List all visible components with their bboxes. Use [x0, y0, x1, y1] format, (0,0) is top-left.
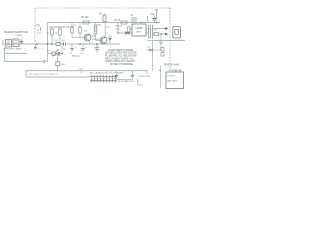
svg-text:+: + — [157, 16, 159, 19]
svg-text:R7 1K: R7 1K — [114, 20, 121, 22]
svg-text:ALL CAPACITORS 16V OR MORE: ALL CAPACITORS 16V OR MORE — [90, 72, 124, 75]
svg-text:ARE 1/4 WATT UNITS. ALL: ARE 1/4 WATT UNITS. ALL — [105, 57, 134, 60]
svg-text:BATTERY: BATTERY — [168, 80, 178, 83]
svg-text:C7: C7 — [105, 33, 109, 35]
svg-text:SHIELDED CABLE: SHIELDED CABLE — [3, 47, 22, 50]
svg-text:+: + — [86, 48, 88, 50]
svg-text:R2: R2 — [62, 40, 66, 42]
svg-text:C11: C11 — [153, 30, 158, 32]
svg-text:PC BOARD. ALL RESISTORS: PC BOARD. ALL RESISTORS — [105, 55, 137, 58]
svg-text:4.5V: 4.5V — [37, 33, 42, 35]
svg-text:R1: R1 — [47, 33, 51, 35]
svg-text:10K: 10K — [97, 25, 101, 27]
svg-text:C3: C3 — [54, 40, 58, 42]
svg-text:R8 10K: R8 10K — [115, 26, 123, 28]
svg-text:NOTED OTHERWISE.: NOTED OTHERWISE. — [110, 64, 134, 66]
svg-text:R7: R7 — [107, 27, 111, 29]
svg-text:ON/OFF SW: ON/OFF SW — [138, 76, 151, 78]
svg-text:9 VOLT: 9 VOLT — [168, 76, 176, 78]
svg-text:10K: 10K — [84, 31, 88, 33]
svg-text:D1: D1 — [147, 47, 151, 49]
svg-text:HEADSET/EARPHONE: HEADSET/EARPHONE — [4, 31, 28, 34]
svg-text:C6: C6 — [55, 33, 59, 35]
svg-text:SPKR 8 OHMS: SPKR 8 OHMS — [164, 65, 180, 67]
svg-text:R9: R9 — [47, 50, 51, 52]
svg-text:ALL RESISTORS 1/4 WATT 5%: ALL RESISTORS 1/4 WATT 5% — [29, 73, 59, 76]
svg-text:R10: R10 — [61, 64, 66, 66]
svg-text:TP2 10: TP2 10 — [72, 56, 80, 58]
svg-text:.1: .1 — [63, 37, 66, 39]
svg-text:B1 9V BATTERY: B1 9V BATTERY — [118, 80, 135, 83]
svg-text:+: + — [42, 48, 44, 50]
svg-text:C2: C2 — [63, 49, 67, 51]
svg-text:DASHED LINES ARE ON THE: DASHED LINES ARE ON THE — [105, 52, 137, 55]
svg-text:R6: R6 — [99, 14, 103, 16]
svg-text:AMP: AMP — [137, 31, 142, 34]
svg-text:+: + — [111, 36, 113, 38]
svg-text:10: 10 — [81, 53, 84, 55]
svg-text:LM386: LM386 — [135, 28, 143, 30]
svg-text:U1: U1 — [130, 14, 134, 17]
svg-text:CAPACITORS IN F UNLESS: CAPACITORS IN F UNLESS — [105, 60, 135, 63]
svg-text:+: + — [75, 48, 77, 50]
svg-text:COMPONENTS INSIDE: COMPONENTS INSIDE — [108, 50, 134, 52]
svg-text:IN: IN — [37, 30, 40, 32]
svg-text:+: + — [38, 48, 40, 50]
svg-text:C5: C5 — [70, 53, 74, 55]
svg-text:R5 10K: R5 10K — [81, 17, 89, 19]
svg-text:R4: R4 — [73, 25, 77, 27]
